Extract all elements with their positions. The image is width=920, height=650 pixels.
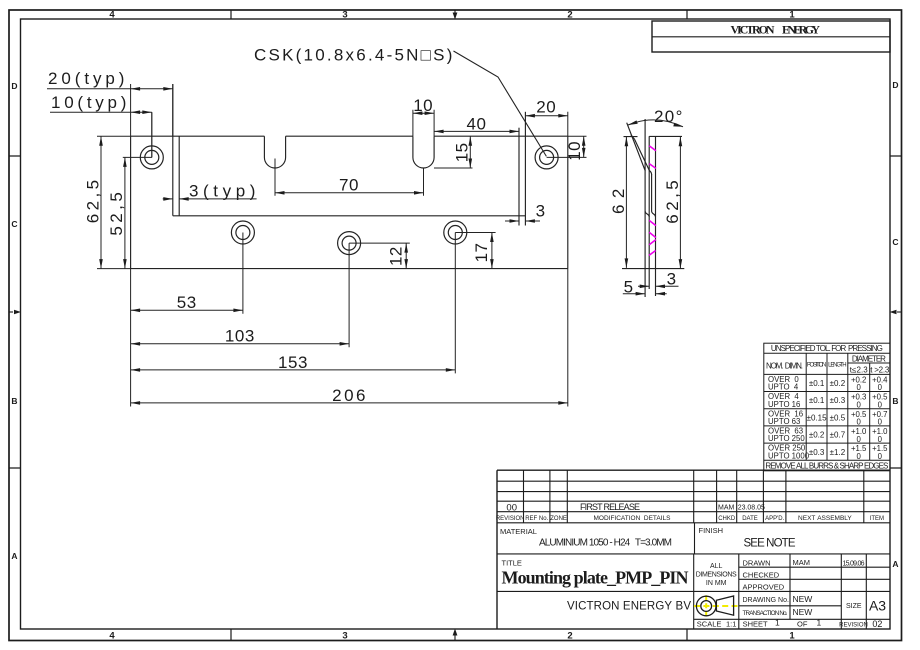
dimension 62 side [609, 137, 628, 268]
dimension 53 [131, 293, 243, 312]
svg-text:±0.1: ±0.1 [809, 379, 825, 388]
material cell [500, 527, 672, 549]
tab slit line C [518, 128, 520, 226]
svg-text:±0.2: ±0.2 [809, 431, 825, 440]
svg-text:C: C [11, 219, 17, 229]
svg-text:MATERIAL: MATERIAL [500, 527, 537, 536]
svg-text:CSK(10.8x6.4-5N□S): CSK(10.8x6.4-5N□S) [254, 46, 453, 65]
svg-text:1:1: 1:1 [726, 620, 736, 629]
victron logo [694, 595, 738, 617]
svg-text:TRANSACTION No.: TRANSACTION No. [743, 610, 788, 617]
svg-text:FINISH: FINISH [699, 526, 724, 535]
svg-text:SEE NOTE: SEE NOTE [744, 538, 796, 550]
title cell [502, 559, 689, 588]
dimension 17 [455, 233, 495, 269]
svg-text:40: 40 [467, 114, 487, 133]
svg-text:MAM: MAM [793, 558, 811, 567]
svg-text:17: 17 [472, 242, 491, 262]
tab slit line B [178, 136, 180, 216]
svg-text:10: 10 [565, 141, 584, 161]
fold line [173, 215, 526, 217]
svg-text:0: 0 [878, 435, 883, 444]
svg-text:UNSPECIFIED TOL. FOR PRESSING: UNSPECIFIED TOL. FOR PRESSING [771, 344, 883, 353]
svg-text:70: 70 [339, 176, 359, 195]
svg-text:CHKD: CHKD [718, 516, 736, 522]
dimension 3 right step [505, 202, 546, 223]
svg-text:C: C [892, 237, 898, 247]
svg-text:±0.3: ±0.3 [809, 448, 825, 457]
centering arrow bottom [453, 629, 458, 641]
svg-text:52,5: 52,5 [107, 192, 126, 236]
hole H3 bottom csk [338, 232, 361, 255]
zone labels bottom [109, 631, 795, 642]
side top extension line [624, 135, 683, 137]
svg-text:0: 0 [878, 452, 883, 461]
svg-text:LENGTH: LENGTH [828, 363, 847, 369]
bottom dims extension lines [131, 112, 568, 406]
svg-text:62,5: 62,5 [84, 179, 103, 223]
svg-text:±0.7: ±0.7 [830, 431, 846, 440]
bend marks magenta [649, 146, 656, 256]
zone ticks bottom [231, 629, 687, 641]
svg-text:UPTO 63: UPTO 63 [768, 417, 800, 426]
svg-text:ITEM: ITEM [870, 516, 884, 522]
svg-text:D: D [892, 80, 898, 90]
svg-text:REVISION: REVISION [839, 623, 868, 629]
svg-text:UPTO 4: UPTO 4 [768, 383, 799, 392]
svg-text:±0.15: ±0.15 [807, 413, 828, 422]
dimension 103 [131, 327, 350, 346]
dimension 52,5 [107, 157, 152, 268]
hole H5 top-right csk [535, 146, 558, 169]
side tab outer jog [645, 211, 649, 217]
side tab inner face with jog [652, 174, 656, 217]
svg-text:UPTO 1000: UPTO 1000 [768, 451, 810, 460]
svg-text:62,5: 62,5 [663, 180, 682, 224]
svg-text:206: 206 [332, 386, 366, 405]
bend relief slot right [413, 136, 434, 168]
dimension 10(typ) [50, 93, 152, 157]
svg-text:0: 0 [857, 452, 862, 461]
svg-text:DIMENSIONS: DIMENSIONS [696, 572, 737, 579]
svg-text:20°: 20° [654, 107, 683, 126]
svg-text:2: 2 [567, 631, 572, 642]
svg-text:02: 02 [872, 619, 882, 629]
svg-text:62: 62 [609, 188, 628, 214]
svg-text:0: 0 [857, 435, 862, 444]
size / a3 [846, 598, 886, 614]
svg-text:00: 00 [506, 503, 517, 514]
bent tab outer edge [627, 123, 646, 171]
zone labels top [109, 10, 795, 21]
zone ticks top [231, 10, 687, 19]
side bottom edge [622, 268, 684, 270]
svg-text:A: A [11, 551, 17, 561]
svg-text:NEXT ASSEMBLY: NEXT ASSEMBLY [798, 515, 852, 522]
tab slit line D [524, 112, 526, 226]
dimension 62,5 front [84, 136, 131, 268]
svg-text:103: 103 [225, 327, 255, 346]
svg-text:3(typ): 3(typ) [189, 181, 256, 200]
svg-text:MODIFICATION DETAILS: MODIFICATION DETAILS [593, 515, 671, 522]
svg-text:0: 0 [878, 400, 883, 409]
svg-text:3: 3 [342, 631, 347, 642]
dimension 20 top-right [525, 98, 567, 137]
VICTRON ENERGY top-right header box [652, 21, 890, 52]
plate outline with slot gaps in top edge [131, 136, 568, 268]
svg-text:23.08.05: 23.08.05 [738, 505, 765, 512]
svg-text:REF No.: REF No. [525, 516, 548, 522]
hole H1 top-left csk [140, 146, 163, 169]
svg-text:D: D [11, 81, 17, 91]
dimension 70 [275, 159, 424, 196]
svg-text:VICTRON: VICTRON [731, 22, 775, 36]
centering arrow left [9, 310, 21, 314]
svg-text:3: 3 [667, 269, 677, 288]
svg-text:B: B [11, 396, 17, 406]
svg-text:1: 1 [775, 618, 780, 628]
side left face [648, 136, 650, 289]
svg-text:±0.2: ±0.2 [830, 379, 846, 388]
svg-text:APPROVED: APPROVED [743, 583, 785, 592]
svg-text:ALL: ALL [710, 563, 723, 570]
svg-text:REMOVE ALL BURRS & SHARP EDGES: REMOVE ALL BURRS & SHARP EDGES [765, 461, 888, 470]
angle dim 20 deg [628, 107, 683, 127]
CSK hole callout [254, 46, 546, 157]
svg-text:4: 4 [109, 10, 115, 21]
svg-text:3: 3 [342, 10, 347, 21]
svg-text:ALUMINIUM 1050 - H24 T=3.0MM: ALUMINIUM 1050 - H24 T=3.0MM [539, 538, 672, 549]
dimension 62,5 side [663, 137, 682, 269]
svg-text:153: 153 [278, 353, 308, 372]
svg-text:t >2.3: t >2.3 [870, 366, 890, 375]
svg-text:POSITION: POSITION [807, 363, 827, 369]
svg-text:t≤2.3: t≤2.3 [850, 366, 869, 375]
svg-text:15: 15 [453, 142, 472, 162]
svg-text:10(typ): 10(typ) [51, 93, 127, 112]
bend relief slot left [264, 136, 285, 168]
svg-text:FIRST RELEASE: FIRST RELEASE [580, 502, 640, 512]
svg-text:NOM. DIMN.: NOM. DIMN. [766, 362, 803, 371]
dimension 153 [131, 353, 456, 372]
svg-text:VICTRON ENERGY BV: VICTRON ENERGY BV [567, 600, 691, 612]
svg-text:20(typ): 20(typ) [48, 69, 125, 88]
drawing no rows [743, 594, 813, 617]
svg-text:B: B [892, 396, 898, 406]
dimension 10 right rotated [547, 136, 587, 161]
svg-text:10: 10 [413, 96, 433, 115]
side tab outer face line [644, 119, 646, 297]
centering arrow top [453, 10, 458, 20]
svg-text:TITLE: TITLE [502, 559, 522, 568]
all dimensions cell [696, 563, 737, 587]
dimension 5 side [623, 278, 667, 297]
svg-text:0: 0 [878, 383, 883, 392]
scale sheet row [697, 618, 883, 629]
svg-text:2: 2 [567, 10, 572, 21]
svg-text:CHECKED: CHECKED [743, 571, 780, 580]
svg-text:DRAWN: DRAWN [743, 559, 771, 568]
svg-text:53: 53 [177, 293, 197, 312]
svg-text:±1.2: ±1.2 [830, 448, 846, 457]
svg-text:UPTO 250: UPTO 250 [768, 434, 805, 443]
dimension 3(typ) [163, 181, 257, 200]
svg-text:SCALE: SCALE [697, 620, 722, 629]
svg-text:12: 12 [387, 246, 406, 266]
svg-text:DIAMETER: DIAMETER [852, 354, 886, 363]
svg-text:SIZE: SIZE [846, 603, 862, 610]
svg-text:0: 0 [857, 418, 862, 427]
hole H4 bottom csk [444, 221, 467, 244]
dimension 20(typ) [47, 69, 173, 136]
svg-text:±0.1: ±0.1 [809, 396, 825, 405]
svg-text:ENERGY: ENERGY [782, 22, 820, 36]
svg-text:NEW: NEW [793, 594, 813, 604]
svg-text:REVISION: REVISION [496, 516, 525, 522]
svg-text:MAM: MAM [718, 505, 735, 512]
drawn rows [743, 558, 865, 592]
svg-text:1: 1 [789, 631, 795, 642]
svg-text:A: A [892, 559, 898, 569]
zone ticks right [890, 156, 902, 468]
svg-text:NEW: NEW [793, 607, 813, 617]
svg-text:ZONE: ZONE [550, 516, 567, 522]
svg-text:A3: A3 [869, 598, 886, 614]
zone ticks left [9, 156, 21, 468]
dimension 10 slot width [413, 96, 434, 136]
svg-text:3: 3 [536, 202, 546, 221]
side right face [655, 136, 657, 296]
zone labels left [11, 81, 17, 561]
svg-text:15.09.06: 15.09.06 [843, 560, 865, 567]
svg-text:0: 0 [857, 383, 862, 392]
svg-text:SHEET: SHEET [743, 620, 768, 629]
bent tab tip [631, 135, 635, 140]
revision row 00 [506, 502, 765, 513]
hole H2 bottom csk [231, 221, 254, 244]
svg-text:0: 0 [857, 400, 862, 409]
svg-text:IN MM: IN MM [706, 580, 727, 587]
svg-text:1: 1 [817, 618, 822, 628]
svg-text:4: 4 [109, 631, 115, 642]
svg-text:0: 0 [878, 418, 883, 427]
finish cell [699, 526, 796, 550]
svg-text:DRAWING No.: DRAWING No. [743, 597, 789, 604]
svg-text:20: 20 [536, 98, 556, 117]
tab slit line A [172, 84, 174, 216]
svg-text:DATE: DATE [742, 516, 758, 522]
bent tab inner edge [635, 139, 652, 174]
dimension 15 rotated [434, 136, 473, 168]
centering arrow right [890, 310, 902, 314]
dimension 12 [349, 243, 410, 269]
dimension 3 side [638, 269, 679, 288]
svg-text:APP'D.: APP'D. [765, 516, 784, 522]
svg-text:Mounting plate_PMP_PIN: Mounting plate_PMP_PIN [502, 568, 689, 588]
dimension 40 [434, 114, 519, 133]
svg-text:UPTO 16: UPTO 16 [768, 400, 800, 409]
dimension 206 [131, 386, 568, 405]
svg-text:1: 1 [789, 10, 795, 21]
zone labels right [892, 80, 898, 569]
svg-text:±0.3: ±0.3 [830, 396, 846, 405]
svg-text:±0.5: ±0.5 [830, 413, 846, 422]
svg-text:OF: OF [797, 620, 808, 629]
